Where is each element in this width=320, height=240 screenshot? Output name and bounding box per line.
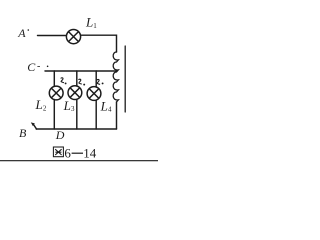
svg-text:-: - [37,61,40,72]
svg-text:2: 2 [43,104,47,112]
svg-text:L: L [100,98,108,113]
svg-text:B: B [19,126,27,140]
svg-text:6: 6 [64,145,71,160]
svg-text:1: 1 [93,22,97,30]
svg-text:A: A [17,26,26,40]
svg-text:L: L [35,97,43,112]
svg-text:D: D [55,128,65,142]
svg-text:C: C [27,60,36,74]
svg-text:3: 3 [71,105,75,113]
svg-text:14: 14 [83,145,97,160]
svg-text:L: L [63,98,71,113]
svg-text:L: L [85,15,93,30]
svg-text:4: 4 [108,106,112,114]
